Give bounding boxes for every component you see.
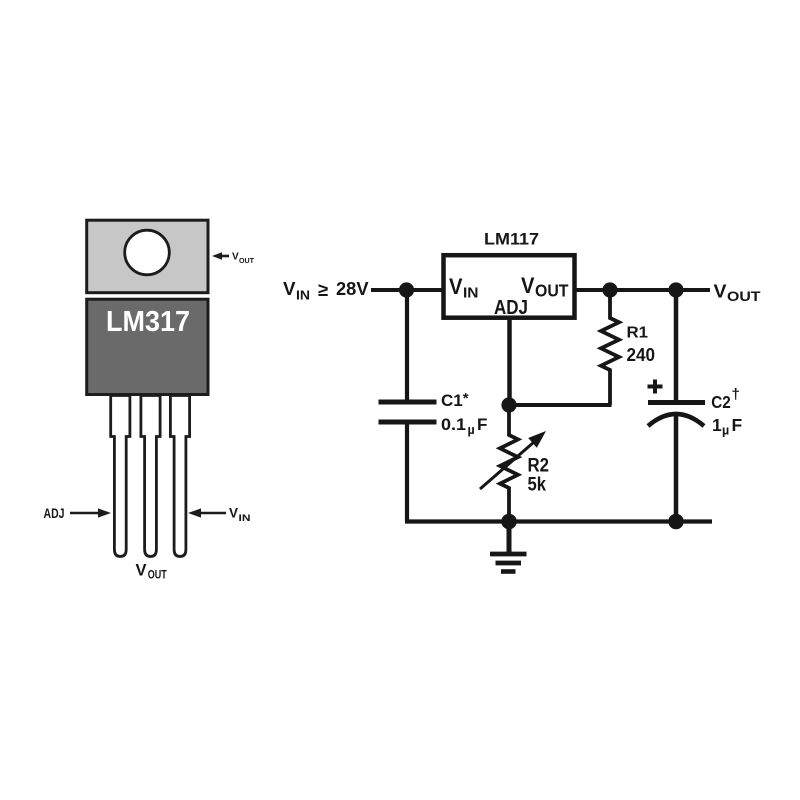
arrow of variable resistor R2 <box>480 431 546 489</box>
pin 3 VIN leg <box>170 396 189 557</box>
arrow VIN to leg <box>188 508 226 517</box>
svg-text:LM317: LM317 <box>106 306 190 338</box>
IC package body <box>87 299 208 394</box>
svg-text:ADJ: ADJ <box>494 296 528 319</box>
node R2 bottom junction <box>501 514 517 530</box>
wire regulator output <box>576 288 710 292</box>
pin 1 ADJ leg <box>111 396 130 557</box>
IC package U1 LM317 TO-220 tab <box>87 220 208 293</box>
svg-text:5k: 5k <box>528 475 547 496</box>
svg-text:R2: R2 <box>528 456 550 477</box>
svg-text:V: V <box>232 252 239 263</box>
IC package mounting hole <box>125 230 170 275</box>
svg-text:OUT: OUT <box>148 570 167 582</box>
svg-text:†: † <box>732 386 740 403</box>
ground symbol <box>490 522 527 572</box>
wire input to regulator <box>371 288 443 292</box>
svg-text:F: F <box>477 415 487 434</box>
svg-text:OUT: OUT <box>239 256 255 265</box>
wire C1 bottom to rail <box>405 423 409 522</box>
svg-text:IN: IN <box>296 288 310 302</box>
svg-text:IN: IN <box>239 513 251 524</box>
svg-text:F: F <box>732 415 743 435</box>
value 1uF <box>712 415 743 438</box>
value 0.1uF <box>441 415 487 437</box>
net label VIN >= 28V <box>283 278 369 302</box>
svg-text:OUT: OUT <box>727 289 761 304</box>
wire ADJ pin down <box>507 318 512 405</box>
svg-text:V: V <box>229 506 238 521</box>
svg-text:OUT: OUT <box>535 281 569 301</box>
wire C2 bottom to rail <box>674 414 679 522</box>
op-amp U2 regulator box LM117 <box>444 255 575 318</box>
node input junction <box>399 282 414 297</box>
svg-text:C2: C2 <box>711 392 731 412</box>
label VIN pin <box>229 506 251 525</box>
node C2 top junction <box>668 282 683 297</box>
svg-text:µ: µ <box>468 423 475 437</box>
svg-text:IN: IN <box>463 286 479 302</box>
svg-text:V: V <box>521 273 535 298</box>
plus sign of C2 <box>648 380 663 394</box>
wire ground rail <box>405 519 712 523</box>
svg-text:1: 1 <box>712 415 722 435</box>
node C2 bottom junction <box>668 514 684 530</box>
svg-text:R1: R1 <box>627 325 649 342</box>
pin label VOUT inside box <box>521 273 569 301</box>
svg-text:V: V <box>136 562 147 580</box>
svg-text:28V: 28V <box>336 278 369 299</box>
wire C2 top <box>674 290 679 400</box>
label VOUT bottom pin <box>136 562 167 582</box>
pin 2 VOUT leg <box>141 396 160 557</box>
node ADJ junction <box>501 397 516 412</box>
svg-text:µ: µ <box>722 424 729 438</box>
resistor R1 <box>601 290 619 405</box>
label VOUT at tab <box>232 252 255 266</box>
svg-text:V: V <box>283 278 296 299</box>
wire input node down to C1 <box>405 290 409 400</box>
svg-text:ADJ: ADJ <box>44 506 65 521</box>
svg-text:≥: ≥ <box>318 279 328 300</box>
capacitor C2 polarized <box>648 403 705 427</box>
capacitor C1 <box>379 402 437 422</box>
svg-text:V: V <box>714 282 727 302</box>
net label VOUT output <box>714 282 762 305</box>
wire ADJ node to R1 bottom <box>509 403 612 407</box>
node R1 top junction <box>602 282 617 297</box>
svg-text:V: V <box>449 274 463 299</box>
resistor R2 variable <box>500 405 518 522</box>
arrow ADJ to leg <box>70 508 111 517</box>
arrow to tab VOUT <box>212 252 229 260</box>
svg-text:0.1: 0.1 <box>441 415 466 434</box>
svg-text:240: 240 <box>627 345 656 365</box>
svg-text:LM117: LM117 <box>484 230 539 249</box>
pin label VIN inside box <box>449 274 479 302</box>
